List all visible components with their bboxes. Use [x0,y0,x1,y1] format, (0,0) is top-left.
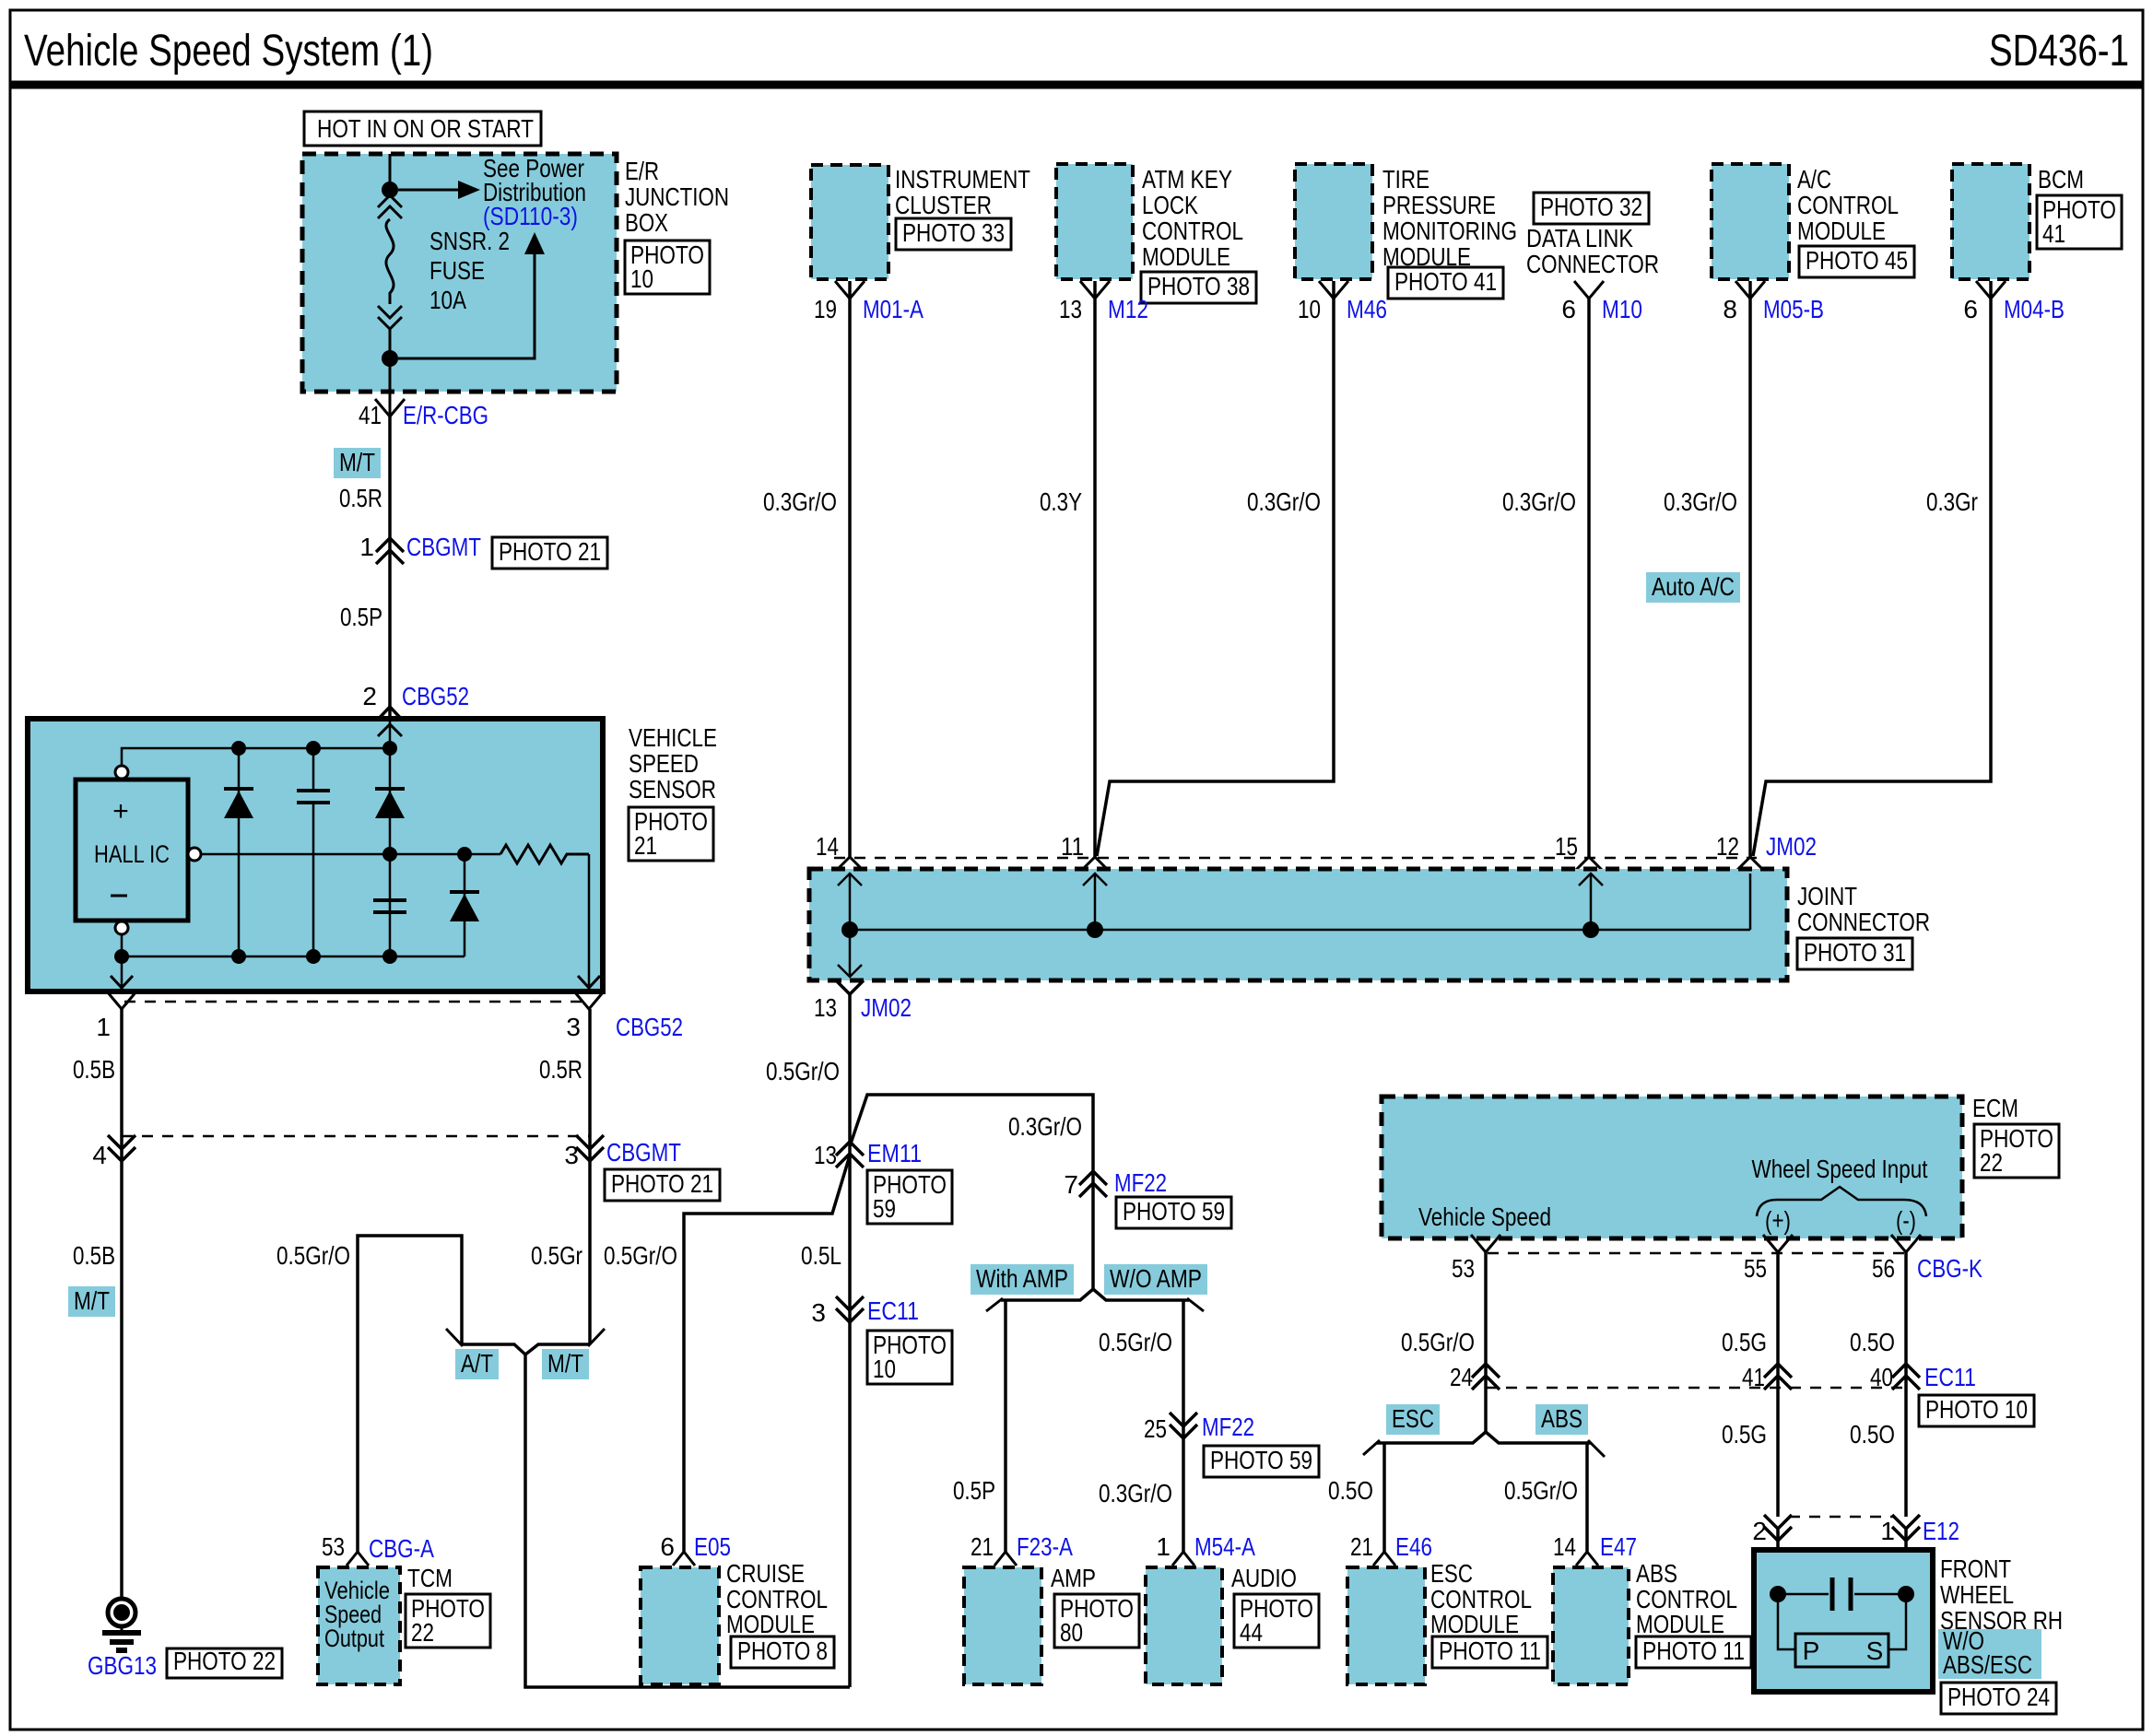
svg-text:24: 24 [1450,1363,1473,1391]
PHOTO 8 box [731,1636,834,1668]
resistor R1 [500,845,589,863]
svg-text:6: 6 [1561,295,1576,323]
svg-text:ECM: ECM [1972,1094,2018,1122]
svg-text:M04-B: M04-B [2004,295,2065,323]
fork with amp branch [1001,1289,1093,1300]
wire: E/R box exit [389,358,392,416]
svg-text:MODULE: MODULE [1430,1610,1519,1638]
svg-text:0.5R: 0.5R [539,1055,582,1084]
svg-text:A/T: A/T [461,1349,493,1378]
AMP box [964,1567,1041,1684]
svg-text:0.3Gr/O: 0.3Gr/O [1247,487,1321,516]
svg-text:PHOTO 8: PHOTO 8 [737,1636,828,1665]
diode D2 [389,748,392,956]
svg-text:PHOTO 59: PHOTO 59 [1123,1197,1225,1226]
wires into sensor [1776,1529,1780,1587]
diode D3 [464,854,466,956]
label W/O AMP [1104,1264,1207,1295]
svg-text:59: 59 [873,1194,896,1223]
wire TCM branch [358,1236,462,1552]
svg-text:E/R-CBG: E/R-CBG [403,401,488,429]
svg-text:PHOTO 11: PHOTO 11 [1439,1636,1541,1665]
PHOTO 24 box [1941,1683,2056,1714]
svg-text:BCM: BCM [2038,165,2084,194]
node: fuse top junction [382,182,398,198]
PHOTO 10 box (EC11) [867,1331,952,1384]
svg-text:21: 21 [1350,1532,1373,1561]
svg-text:+: + [112,796,129,827]
svg-text:44: 44 [1240,1618,1263,1647]
node dots on bottom rail [114,949,129,964]
terminal circle bottom of HALL IC [115,921,128,934]
wire E/R-CBG to CBGMT [388,416,392,545]
svg-text:CBGMT: CBGMT [406,533,481,561]
svg-text:22: 22 [1980,1148,2003,1177]
svg-text:1: 1 [1880,1517,1895,1545]
svg-text:1: 1 [96,1013,111,1041]
svg-text:4: 4 [92,1141,107,1169]
connector 21 F23-A [994,1552,1017,1566]
svg-text:MF22: MF22 [1202,1413,1254,1441]
svg-text:PHOTO 22: PHOTO 22 [173,1647,276,1675]
svg-text:E12: E12 [1923,1517,1959,1545]
svg-text:3: 3 [564,1141,579,1169]
svg-text:M12: M12 [1108,295,1148,323]
svg-text:M46: M46 [1347,295,1387,323]
svg-text:MODULE: MODULE [1636,1610,1724,1638]
chevrons at joint row [837,857,863,870]
joint connector box [809,869,1787,980]
svg-text:PRESSURE: PRESSURE [1382,191,1496,219]
internal arrows [849,874,852,930]
pin 13 JM02 below box [836,980,864,994]
wire MF22 to fork [1091,1184,1095,1289]
connector 1 CBGMT [376,538,404,552]
svg-text:LOCK: LOCK [1142,191,1198,219]
pin 8 M05-B [1735,281,1765,299]
bus node dots [841,921,858,938]
svg-text:Auto A/C: Auto A/C [1652,572,1735,601]
svg-text:E46: E46 [1395,1532,1432,1561]
svg-text:GBG13: GBG13 [88,1651,157,1680]
ATM key lock control module box [1056,164,1133,279]
ECM box [1382,1097,1962,1238]
wire EM11 to MF22 [850,1095,1093,1184]
wire joint connector pin13 to EC11 and bottom [848,994,852,1687]
svg-text:Vehicle Speed: Vehicle Speed [1418,1202,1551,1231]
sensor capacitor [1785,1593,1829,1596]
svg-text:0.5Gr/O: 0.5Gr/O [1504,1476,1578,1505]
pin 19 M01-A [835,281,865,299]
svg-text:M/T: M/T [547,1349,583,1378]
svg-text:3: 3 [811,1298,826,1327]
svg-text:(+): (+) [1765,1206,1791,1235]
PHOTO 22 box (ECM) [1974,1124,2059,1178]
PHOTO 22 box (TCM) [406,1594,490,1648]
PHOTO 21 box (CBGMT) [605,1169,720,1201]
pin 13 M12 [1080,281,1110,299]
wire pin3 to CBGMT [588,1009,592,1149]
ESC control module box [1347,1567,1425,1684]
PHOTO 59 box (MF22-25) [1204,1446,1319,1477]
E12 dashed row [1789,1516,1894,1519]
connector 40 EC11 [1892,1364,1920,1378]
PHOTO 38 box [1141,272,1256,303]
PHOTO 45 box [1799,246,1914,277]
svg-text:41: 41 [2042,219,2065,248]
svg-text:SD436-1: SD436-1 [1989,27,2129,76]
svg-text:M01-A: M01-A [863,295,924,323]
sensor internal nodes [1770,1586,1786,1602]
svg-text:11: 11 [1061,832,1084,861]
svg-text:ESC: ESC [1430,1559,1473,1588]
svg-text:CLUSTER: CLUSTER [895,191,992,219]
svg-text:E47: E47 [1600,1532,1637,1561]
svg-text:HOT IN ON OR START: HOT IN ON OR START [317,114,534,143]
svg-text:2: 2 [362,682,377,710]
label HOT IN ON OR START [304,111,541,146]
pin 1 [107,991,136,1009]
svg-text:EM11: EM11 [867,1139,922,1167]
svg-text:JM02: JM02 [1766,832,1817,861]
svg-text:0.5G: 0.5G [1722,1420,1767,1449]
node dots on middle rail [382,847,397,862]
BCM box [1952,164,2029,279]
svg-text:M/T: M/T [74,1286,110,1315]
svg-text:6: 6 [1963,295,1978,323]
svg-text:AMP: AMP [1051,1564,1096,1592]
svg-text:0.5B: 0.5B [73,1241,115,1270]
svg-text:13: 13 [814,1141,837,1169]
svg-text:7: 7 [1064,1170,1078,1199]
terminal circle top of HALL IC [115,766,128,779]
VSS pin2 entry arrows [389,721,392,748]
connector 2 E12 [1764,1515,1792,1529]
svg-text:PHOTO 10: PHOTO 10 [1925,1395,2028,1424]
svg-text:13: 13 [814,993,837,1022]
svg-text:Output: Output [324,1625,384,1652]
TCM box [318,1567,400,1684]
svg-text:53: 53 [1452,1254,1475,1283]
svg-text:15: 15 [1555,832,1578,861]
svg-text:0.3Y: 0.3Y [1040,487,1082,516]
svg-text:0.5Gr/O: 0.5Gr/O [1099,1328,1172,1356]
tick A/T [446,1329,463,1346]
pin 10 M46 [1319,281,1348,299]
svg-text:SPEED: SPEED [629,749,699,778]
PHOTO 41 box (TPMS) [1388,267,1503,299]
connector 1 M54-A [1172,1552,1194,1566]
svg-text:PHOTO 31: PHOTO 31 [1804,938,1906,967]
svg-text:SENSOR: SENSOR [629,775,716,803]
svg-text:ABS/ESC: ABS/ESC [1943,1650,2032,1679]
joint connector internal bus [850,929,1750,932]
VSS middle rail [188,848,201,861]
connector 3 CBGMT [576,1135,604,1149]
svg-text:A/C: A/C [1797,165,1831,194]
svg-text:0.5O: 0.5O [1328,1476,1373,1505]
PHOTO 41 box (BCM) [2037,195,2122,249]
wire: fuse feed inside E/R box [389,154,392,190]
svg-text:8: 8 [1723,295,1737,323]
svg-text:TCM: TCM [407,1564,453,1592]
VSS pins dashed row [124,1001,587,1003]
svg-text:HALL IC: HALL IC [94,840,170,868]
wire M05-B [1748,281,1752,858]
node dots on top rail [231,741,246,756]
svg-text:JUNCTION: JUNCTION [625,182,729,211]
wire vehicle speed 53 [1484,1252,1488,1432]
tire pressure monitoring module box [1295,164,1372,279]
svg-text:PHOTO 32: PHOTO 32 [1540,193,1642,221]
svg-text:3: 3 [566,1013,581,1041]
wire M12 [1093,281,1097,858]
instrument cluster box [811,165,888,279]
capacitor C1 [312,748,315,790]
pin 6 M10 [1574,281,1604,299]
svg-text:SNSR. 2: SNSR. 2 [429,227,510,255]
svg-text:Wheel Speed Input: Wheel Speed Input [1752,1155,1928,1183]
label ABS [1535,1404,1588,1435]
ground symbol GBG13 [108,1599,135,1626]
fuse SNSR. 2 FUSE 10A [378,195,402,207]
svg-text:0.3Gr: 0.3Gr [1926,487,1978,516]
wire: fuse to lower junction [389,327,392,358]
svg-text:EC11: EC11 [867,1296,919,1325]
PHOTO 11 box (ESC) [1432,1636,1547,1668]
svg-text:0.5L: 0.5L [801,1241,841,1270]
ECM pins dashed row [1488,1252,1904,1255]
svg-text:0.5Gr/O: 0.5Gr/O [604,1241,677,1270]
HALL IC box [76,780,188,921]
connector 14 E47 [1576,1552,1598,1566]
svg-text:ABS: ABS [1541,1404,1582,1433]
svg-text:2: 2 [1752,1517,1767,1545]
svg-text:MODULE: MODULE [1797,217,1886,245]
svg-text:CBG52: CBG52 [616,1013,683,1041]
svg-text:0.5R: 0.5R [339,484,382,512]
wire pin1 to ground [120,1009,124,1600]
svg-text:(-): (-) [1896,1206,1916,1235]
fork w/o amp branch [1093,1289,1189,1300]
A/T M/T merge [462,1344,525,1355]
svg-text:VEHICLE: VEHICLE [629,723,717,752]
svg-text:25: 25 [1144,1414,1167,1443]
joint connector dashed row [834,857,1757,860]
svg-text:0.5P: 0.5P [953,1476,995,1505]
connector 4 [108,1135,135,1149]
svg-text:ABS: ABS [1636,1559,1677,1588]
tick M/T [588,1329,605,1346]
PHOTO 33 box [896,218,1011,250]
svg-text:MODULE: MODULE [726,1610,815,1638]
svg-text:22: 22 [411,1618,434,1647]
svg-text:JM02: JM02 [861,993,912,1022]
svg-text:0.5Gr/O: 0.5Gr/O [1401,1328,1475,1356]
svg-text:CONTROL: CONTROL [1797,191,1899,219]
wire M10 [1587,299,1591,858]
arrow: return to SD110-3 [398,252,535,358]
svg-text:0.5Gr/O: 0.5Gr/O [766,1057,840,1085]
PHOTO 21 box [492,537,607,569]
svg-text:0.5P: 0.5P [340,603,382,631]
cruise control module box [641,1567,719,1684]
svg-text:0.5G: 0.5G [1722,1328,1767,1356]
svg-text:With AMP: With AMP [976,1264,1068,1293]
capacitor C2 [373,898,406,902]
svg-text:0.3Gr/O: 0.3Gr/O [1664,487,1737,516]
connector 6 E05 [673,1552,695,1566]
connector 41 [1764,1364,1792,1378]
svg-text:CRUISE: CRUISE [726,1559,805,1588]
title separator thick line [10,81,2143,89]
svg-text:1: 1 [1156,1532,1171,1561]
svg-text:PHOTO 45: PHOTO 45 [1806,246,1908,275]
label With AMP [971,1264,1074,1295]
svg-text:S: S [1866,1636,1884,1665]
svg-text:M05-B: M05-B [1763,295,1824,323]
PHOTO 10 box [625,240,710,294]
svg-text:21: 21 [971,1532,994,1561]
ABS control module box [1553,1567,1629,1684]
svg-text:0.5B: 0.5B [73,1055,115,1084]
svg-text:CBG-A: CBG-A [369,1534,434,1563]
connector 2 CBG52 [375,707,405,722]
pin 6 M04-B [1976,281,2006,299]
connector 1 E12 [1892,1515,1920,1529]
svg-text:14: 14 [816,832,839,861]
svg-text:PHOTO 33: PHOTO 33 [902,218,1005,247]
connector 21 E46 [1373,1552,1395,1566]
svg-text:PHOTO 21: PHOTO 21 [611,1169,713,1198]
AUDIO box [1146,1567,1222,1684]
ECM pin 53 [1471,1235,1500,1252]
sensor P S box [1778,1601,1795,1649]
svg-text:CBG52: CBG52 [402,682,469,710]
svg-text:14: 14 [1553,1532,1576,1561]
arrow: See Power Distribution [398,189,458,192]
connector 53 CBG-A [347,1552,369,1566]
PHOTO 21 box (sensor) [629,807,713,861]
svg-text:M10: M10 [1602,295,1642,323]
dashed row pin4 [122,1135,590,1138]
svg-text:CONNECTOR: CONNECTOR [1797,908,1930,936]
svg-text:10A: 10A [429,286,466,314]
connector 13 EM11 [836,1142,864,1155]
node: lower junction [382,350,398,367]
svg-text:PHOTO 21: PHOTO 21 [499,537,601,566]
svg-text:FRONT: FRONT [1940,1554,2011,1583]
label W/O ABS/ESC [1938,1629,2041,1679]
svg-text:0.3Gr/O: 0.3Gr/O [1008,1112,1082,1141]
connector 3 EC11 [836,1296,864,1310]
wire CBGMT to M/T tick [588,1149,592,1344]
svg-text:AUDIO: AUDIO [1231,1564,1297,1592]
svg-text:0.3Gr/O: 0.3Gr/O [763,487,837,516]
svg-text:CONTROL: CONTROL [1142,217,1243,245]
svg-text:PHOTO 24: PHOTO 24 [1947,1683,2050,1711]
diode D1 [238,748,241,956]
svg-text:13: 13 [1059,295,1082,323]
connector 7 MF22 [1079,1171,1107,1185]
svg-text:1: 1 [359,533,374,561]
svg-text:CBG-K: CBG-K [1917,1254,1982,1283]
svg-text:0.5O: 0.5O [1850,1420,1895,1449]
PHOTO 31 box [1797,938,1912,969]
wire merged to bottom [525,1355,850,1687]
svg-text:PHOTO 41: PHOTO 41 [1394,267,1497,296]
svg-text:0.3Gr/O: 0.3Gr/O [1099,1479,1172,1507]
svg-text:PHOTO 59: PHOTO 59 [1210,1446,1312,1474]
wire pin1 exit [121,956,124,970]
PHOTO 32 box (DLC) [1534,193,1649,224]
svg-text:12: 12 [1716,832,1739,861]
ECM pin 55 [1763,1235,1793,1252]
connector pin 41 E/R-CBG [375,399,405,416]
PHOTO 10 box (EC11-40) [1919,1395,2034,1426]
svg-text:0.5Gr/O: 0.5Gr/O [276,1241,350,1270]
svg-text:21: 21 [634,831,657,860]
wire resistor to pin 3 [588,854,591,970]
PHOTO 59 box (MF22-7) [1116,1197,1231,1228]
A/C control module box [1712,164,1789,279]
connector 24 [1472,1364,1500,1378]
svg-text:PHOTO 11: PHOTO 11 [1642,1636,1745,1665]
wire HALL IC minus to bottom rail [121,934,124,956]
E/R junction box [302,154,617,392]
svg-text:BOX: BOX [625,208,668,237]
svg-text:PHOTO 38: PHOTO 38 [1147,272,1250,300]
VSS top rail [122,748,390,765]
ECM pin 56 CBG-K [1891,1235,1921,1252]
label M/T (left) [68,1286,115,1317]
VSS bottom rail [122,956,465,958]
brace over (+) (-) [1757,1187,1926,1216]
svg-text:P: P [1803,1636,1820,1665]
svg-text:10: 10 [630,264,653,293]
PHOTO 22 box (ground) [167,1648,282,1678]
wire 56 [1904,1252,1908,1517]
svg-text:MF22: MF22 [1114,1168,1167,1197]
svg-text:EC11: EC11 [1924,1363,1976,1391]
svg-text:19: 19 [814,295,837,323]
svg-text:CONNECTOR: CONNECTOR [1526,250,1659,278]
label ESC [1386,1404,1440,1435]
connector 25 MF22 [1170,1413,1197,1426]
svg-text:E/R: E/R [625,157,659,185]
label Auto A/C [1646,572,1740,603]
wire M04-B [1753,281,1991,856]
svg-text:M54-A: M54-A [1194,1532,1255,1561]
svg-text:10: 10 [873,1355,896,1383]
svg-text:0.5O: 0.5O [1850,1328,1895,1356]
svg-text:MONITORING: MONITORING [1382,217,1517,245]
svg-text:55: 55 [1744,1254,1767,1283]
svg-text:W/O AMP: W/O AMP [1110,1264,1202,1293]
svg-text:JOINT: JOINT [1797,882,1857,910]
svg-text:41: 41 [359,401,382,429]
svg-text:F23-A: F23-A [1017,1532,1073,1561]
svg-text:TIRE: TIRE [1382,165,1429,194]
svg-text:Vehicle Speed System (1): Vehicle Speed System (1) [24,27,433,76]
svg-text:10: 10 [1298,295,1321,323]
wire M46 [1097,281,1334,856]
PHOTO 80 box [1054,1594,1139,1648]
wire CBGMT to CBG52 [388,545,392,710]
svg-text:FUSE: FUSE [429,256,485,285]
wire cruise branch [684,1155,850,1552]
PHOTO 44 box [1234,1594,1319,1648]
